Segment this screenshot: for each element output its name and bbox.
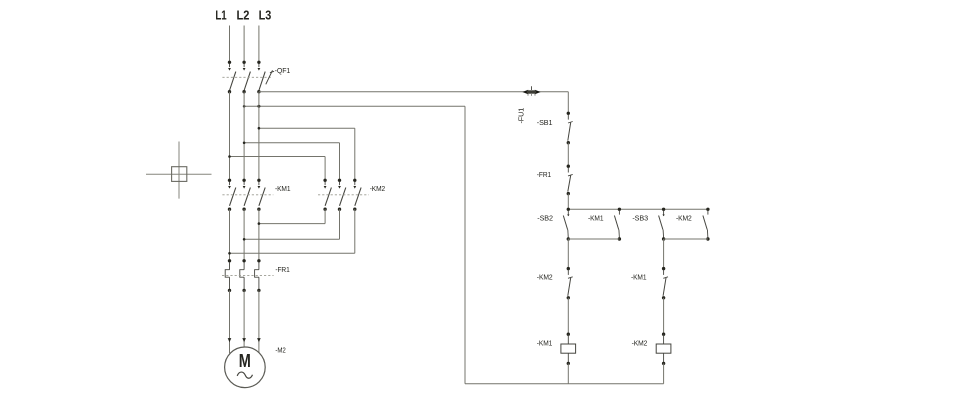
svg-text:L1: L1 (215, 7, 226, 22)
wire KM2 pole 3 cross to phase 1 (228, 209, 355, 254)
wire to KM1 interlock (663, 239, 665, 269)
node L1 label (215, 7, 226, 22)
svg-text:-KM2: -KM2 (632, 339, 648, 348)
svg-text:-SB3: -SB3 (632, 213, 648, 222)
thermal overload FR1 pole 1 (225, 259, 231, 292)
interlock contact KM1 (NC) (662, 267, 668, 300)
stop button SB1 (NC) (567, 112, 573, 145)
holding contact KM2 aux (NO) (703, 208, 710, 241)
wire L3 branch to KM2 pole 3 (258, 127, 355, 180)
circuit breaker QF1 pole 2 (242, 61, 250, 94)
wire L2 branch to KM2 pole 2 (243, 142, 340, 181)
node L3 label (259, 7, 272, 22)
label -KM2 (aux) (676, 213, 692, 222)
label -FR1 (main) (275, 265, 289, 274)
wire FR1 to motor phase 3 (257, 290, 261, 353)
wire L3 QF1 to KM1 pole 3 (258, 92, 260, 181)
wire parallel branch top rail (568, 208, 708, 210)
label -QF1 (275, 66, 291, 75)
thermal overload FR1 pole 3 (255, 259, 261, 292)
circuit breaker QF1 pole 3 (257, 61, 265, 94)
circuit breaker QF1 operator blade (266, 70, 274, 84)
svg-text:-SB1: -SB1 (537, 118, 553, 127)
wire L3 to control feed (259, 91, 568, 93)
contactor KM1 pole 2 (242, 179, 250, 211)
label -SB3 (632, 213, 648, 222)
start button SB2 (NO) (563, 208, 570, 241)
svg-text:-KM1: -KM1 (275, 184, 290, 193)
thermal overload FR1 linkage (222, 274, 274, 276)
contactor KM1 pole 1 (228, 179, 236, 211)
wire to KM2 interlock (567, 239, 569, 269)
label -M2 (275, 345, 285, 354)
wire FR1 to motor phase 1 (228, 290, 232, 353)
thermal overload FR1 pole 2 (240, 259, 246, 292)
label -KM2 (coil) (632, 339, 648, 348)
wire SB1 to FR1 contact (567, 143, 569, 167)
svg-text:-FR1: -FR1 (537, 170, 551, 179)
contactor KM2 pole 2 (338, 179, 346, 211)
svg-text:-KM2: -KM2 (537, 273, 553, 282)
wire SB2/KM1aux bottom link (568, 238, 619, 240)
wire KM1 coil to bottom rail (567, 363, 569, 383)
svg-text:-M2: -M2 (275, 345, 285, 354)
fuse FU1 (522, 86, 540, 96)
circuit breaker QF1 pole 1 (228, 61, 236, 94)
label -KM1 (main) (275, 184, 290, 193)
label -KM2 (interlock) (537, 273, 553, 282)
svg-text:L2: L2 (237, 7, 250, 22)
wire L2 QF1 to KM1 pole 2 (243, 92, 245, 181)
reference crosshair marker (146, 142, 212, 199)
contactor KM2 pole 3 (353, 179, 361, 211)
wire L2 to control return (243, 105, 465, 108)
wire KM2 pole 1 cross to phase 3 (258, 209, 326, 225)
svg-text:-FU1: -FU1 (518, 108, 525, 124)
wire SB3/KM2aux bottom link (664, 238, 708, 240)
wire control feed drop (567, 92, 569, 114)
holding contact KM1 aux (NO) (614, 208, 621, 241)
wire L1 branch to KM2 pole 1 (228, 155, 325, 180)
wire KM2 coil to bottom rail (663, 363, 665, 383)
label -KM2 (main) (370, 184, 385, 193)
wire L2 incoming (243, 26, 245, 63)
motor M2 (225, 347, 266, 388)
wire FR1 contact to node (567, 194, 569, 210)
label -KM1 (coil) (537, 339, 552, 348)
wire KM2 pole 2 to phase 2 (243, 209, 340, 240)
wire FR1 to motor phase 2 (242, 290, 246, 347)
svg-text:-QF1: -QF1 (275, 66, 291, 75)
wire L1 QF1 to KM1 pole 1 (229, 92, 231, 181)
svg-text:-KM1: -KM1 (537, 339, 552, 348)
contactor KM1 linkage (222, 194, 273, 196)
circuit breaker QF1 linkage (222, 76, 272, 78)
svg-text:M: M (239, 351, 251, 371)
label -KM1 (interlock) (631, 273, 646, 282)
svg-text:-FR1: -FR1 (275, 265, 289, 274)
label -FU1 (rotated) (518, 108, 525, 124)
label -KM1 (aux) (588, 213, 603, 222)
svg-text:-KM1: -KM1 (588, 213, 603, 222)
svg-text:-KM2: -KM2 (370, 184, 385, 193)
wire KM1 pole 1 to FR1 (229, 209, 231, 261)
interlock contact KM2 (NC) (567, 267, 573, 300)
label -FR1 (control) (537, 170, 551, 179)
wire to KM1 coil (567, 298, 569, 334)
svg-text:-KM2: -KM2 (676, 213, 692, 222)
label -SB1 (537, 118, 553, 127)
contactor KM2 pole 1 (323, 179, 331, 211)
wire L3 incoming (258, 26, 260, 63)
wire KM1 pole 2 to FR1 (243, 209, 245, 261)
overload contact FR1 (NC) (567, 165, 573, 196)
start button SB3 (NO) (659, 208, 666, 241)
contactor KM2 linkage (318, 194, 369, 196)
wire to KM2 coil (663, 298, 665, 334)
contactor KM1 pole 3 (257, 179, 265, 211)
wire L1 incoming (229, 26, 231, 63)
coil KM2 (656, 333, 671, 366)
svg-text:-SB2: -SB2 (537, 213, 553, 222)
coil KM1 (561, 333, 576, 366)
wire bottom return rail (465, 383, 664, 385)
wire KM1 pole 3 to FR1 (258, 209, 260, 261)
wire control return drop (464, 106, 466, 383)
svg-text:-KM1: -KM1 (631, 273, 646, 282)
label -SB2 (537, 213, 553, 222)
node L2 label (237, 7, 250, 22)
svg-text:L3: L3 (259, 7, 272, 22)
